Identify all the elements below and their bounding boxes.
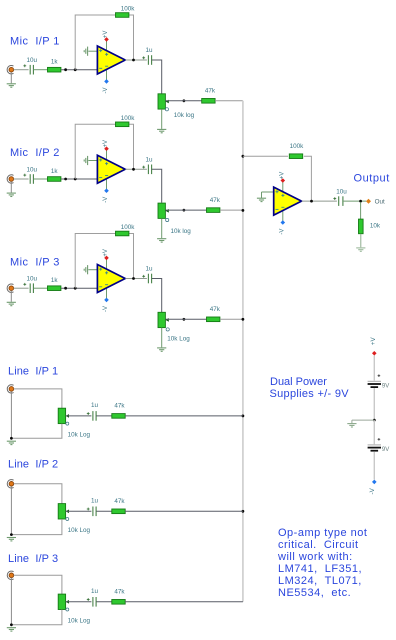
ground line input 2 [7, 538, 16, 541]
svg-text:1u: 1u [91, 497, 99, 504]
ground at mic input 1 [7, 84, 16, 87]
svg-text:100k: 100k [121, 115, 136, 122]
svg-text:47k: 47k [114, 403, 125, 410]
svg-text:+V: +V [370, 337, 377, 346]
resistor R10 100k feedback [289, 154, 302, 159]
wire U4 + input to ground [262, 191, 274, 193]
wire R14 to summing bus [125, 601, 243, 603]
svg-text:100k: 100k [121, 224, 136, 231]
resistor R2b 100k feedback [116, 122, 129, 127]
svg-text:10u: 10u [27, 167, 38, 174]
wire U4 output to C7 [302, 200, 337, 202]
svg-text:critical. Circuit: critical. Circuit [278, 539, 359, 551]
svg-text:100k: 100k [121, 6, 136, 13]
line input connector J4 [7, 385, 13, 393]
svg-text:1u: 1u [145, 47, 153, 54]
svg-text:1u: 1u [145, 266, 153, 273]
svg-text:47k: 47k [210, 197, 221, 204]
wire centre node to ground [352, 419, 374, 421]
capacitor C3b 1u [148, 274, 151, 284]
svg-text:-V: -V [103, 88, 109, 94]
svg-text:9V: 9V [382, 383, 389, 389]
resistor R11 10k load [359, 219, 364, 234]
feedback loop wire mic2 [75, 124, 133, 179]
svg-text:Mic I/P 3: Mic I/P 3 [10, 257, 60, 269]
wire R3c to summing bus [220, 318, 243, 320]
C2a polarity + [23, 174, 26, 177]
node mic2 output node [132, 168, 135, 171]
wire J4 to pot VR4 [14, 389, 62, 408]
op-amp U1 +V terminal [104, 37, 109, 42]
wire J4 sleeve down [10, 391, 12, 438]
op-amp U2 -V pin mark [105, 175, 108, 177]
svg-text:1u: 1u [91, 402, 99, 409]
summing bus (virtual earth node) [242, 101, 244, 602]
wire J3 to ground [10, 291, 12, 302]
potentiometer VR6 10k Log [58, 594, 65, 609]
wire VR1 to ground [161, 109, 163, 129]
svg-text:NE5534, etc.: NE5534, etc. [278, 587, 351, 599]
svg-text:1k: 1k [51, 277, 59, 284]
wire J3 to C3a [14, 287, 29, 289]
ground at mic input 2 [7, 193, 16, 196]
wire R2a to op-amp inverting input [61, 178, 98, 180]
op-amp U3 -V terminal [104, 298, 109, 303]
potentiometer VR3 10k log [158, 312, 165, 327]
node mic1 wiper node [183, 99, 186, 102]
ground below R11 [356, 248, 365, 251]
op-amp U1 - input mark [99, 67, 102, 69]
node bus line2 tap [242, 510, 245, 513]
ground line input 1 [7, 441, 16, 444]
wire R2c to summing bus [220, 209, 243, 211]
wire battery B2 to -V [373, 452, 375, 480]
ground below VR2 [157, 239, 166, 242]
capacitor C9 1u [93, 507, 96, 517]
wire J6 sleeve down [10, 578, 12, 625]
op-amp U3 - input mark [99, 286, 102, 288]
node mic2 input node a [64, 178, 67, 181]
wire VR4 wiper to C8 [66, 415, 92, 417]
node output node [359, 200, 362, 203]
wire R1a to op-amp inverting input [61, 69, 98, 71]
wire ground drop U4 [261, 192, 263, 198]
C7 polarity + [333, 197, 336, 200]
feedback loop wire mic3 [75, 234, 133, 289]
svg-text:47k: 47k [114, 588, 125, 595]
node mic2 feedback node [74, 178, 77, 181]
svg-text:Line I/P 3: Line I/P 3 [8, 553, 58, 565]
feedback loop wire mic1 [75, 15, 133, 70]
op-amp U4 + input mark [276, 190, 279, 193]
resistor R13 47k [112, 509, 125, 514]
C8 polarity + [87, 412, 90, 415]
wire J2 to C2a [14, 178, 29, 180]
wire VR6 wiper to C10 [66, 601, 92, 603]
wire J1 to ground [10, 72, 12, 83]
svg-text:10k Log: 10k Log [68, 617, 91, 624]
op-amp U3 power stubs [106, 258, 108, 274]
svg-text:will work with:: will work with: [277, 551, 353, 563]
svg-text:Mic I/P 1: Mic I/P 1 [10, 35, 60, 47]
node mic1 output node [132, 59, 135, 62]
ground at supply centre [347, 424, 356, 427]
potentiometer VR5 10k Log [58, 504, 65, 519]
svg-text:Output: Output [354, 173, 390, 185]
op-amp U4 - input mark [276, 208, 279, 210]
svg-text:-V: -V [103, 306, 109, 312]
C9 polarity + [87, 508, 90, 511]
wire VR5 bottom to ground rail line2 [11, 519, 62, 535]
resistor R14 47k [112, 600, 125, 605]
wire R12 to summing bus [125, 415, 243, 417]
svg-text:1k: 1k [51, 168, 59, 175]
node mic1 input node a [64, 68, 67, 71]
svg-text:10u: 10u [27, 57, 38, 64]
Out terminal [366, 199, 371, 204]
op-amp U3 +V terminal [104, 256, 109, 261]
capacitor C7 10u output [339, 196, 343, 206]
pot VR5 bottom terminal circle [66, 518, 69, 521]
resistor R2a 1k [48, 177, 61, 182]
node mic3 wiper node [183, 318, 186, 321]
pot VR6 bottom terminal circle [66, 608, 69, 611]
resistor R12 47k [112, 414, 125, 419]
svg-text:10k Log: 10k Log [68, 431, 91, 438]
wire J5 sleeve down [10, 486, 12, 534]
node bus feedback tap [242, 155, 245, 158]
C3b polarity + [142, 275, 145, 278]
op-amp U1 [97, 46, 125, 74]
svg-text:-V: -V [279, 229, 285, 235]
wire R3a to op-amp inverting input [61, 287, 98, 289]
node bus mic3 tap [242, 318, 245, 321]
pot VR4 bottom terminal circle [66, 422, 69, 425]
ground at mic input 3 [7, 302, 16, 305]
wire C2a to R2a [34, 178, 48, 180]
node bus to op-amp U4 input [242, 209, 245, 212]
svg-text:10k Log: 10k Log [68, 527, 91, 534]
svg-text:10k log: 10k log [174, 112, 195, 119]
C10 polarity + [87, 598, 90, 601]
svg-text:Supplies +/- 9V: Supplies +/- 9V [270, 388, 350, 400]
svg-text:LM324, TL071,: LM324, TL071, [278, 575, 362, 587]
op-amp U4 +V pin mark [281, 194, 284, 197]
wire C2b to volume pot mic2 [152, 169, 162, 203]
wire +V to battery B1 [373, 356, 375, 381]
wire C8 to R12 [96, 415, 112, 417]
wire VR2 to ground [161, 219, 163, 239]
line input connector J6 [7, 571, 13, 579]
ground below VR1 [157, 129, 166, 132]
wire C3b to volume pot mic3 [152, 279, 162, 313]
wire R1c to summing bus [215, 100, 243, 102]
svg-text:Out: Out [375, 198, 385, 205]
-V supply terminal [372, 480, 377, 485]
svg-text:9V: 9V [382, 447, 389, 453]
wire C10 to R14 [96, 601, 112, 603]
op-amp U3 [97, 265, 125, 293]
wire C7 to Out terminal [342, 200, 366, 202]
node line2 ground node [10, 533, 13, 536]
op-amp U4 -V pin mark [281, 206, 284, 208]
op-amp U2 -V terminal [104, 188, 109, 193]
wire VR6 bottom to ground rail line3 [11, 610, 62, 625]
capacitor C2a 10u [30, 174, 33, 184]
op-amp U2 +V terminal [104, 146, 109, 151]
wire centre node to battery B2 [373, 420, 375, 444]
wire C3a to R3a [34, 287, 48, 289]
wire ground drop supply [351, 420, 353, 423]
battery B2 9V [368, 445, 381, 451]
wire C1a to R1a [34, 69, 48, 71]
node bus line1 tap [242, 415, 245, 418]
wire non-inverting input to ground mic3 [88, 269, 97, 271]
op-amp U4 -V terminal [281, 220, 286, 225]
resistor R1a 1k [48, 67, 61, 72]
line input connector J5 [7, 480, 13, 488]
op-amp U1 -V terminal [104, 79, 109, 84]
node mic3 output node [132, 277, 135, 280]
svg-text:LM741, LF351,: LM741, LF351, [278, 563, 362, 575]
node line1 ground node [10, 437, 13, 440]
svg-text:10k: 10k [370, 222, 381, 229]
ground below VR3 [157, 348, 166, 351]
wire VR3 wiper to R3c [165, 318, 206, 320]
ground line input 3 [7, 628, 16, 631]
wire R13 to summing bus [125, 510, 243, 512]
wire C9 to R13 [96, 510, 112, 512]
svg-text:47k: 47k [210, 306, 221, 313]
capacitor C1b 1u [148, 55, 151, 65]
svg-text:-V: -V [103, 197, 109, 203]
svg-text:100k: 100k [290, 143, 305, 150]
capacitor C8 1u [93, 411, 96, 421]
capacitor C1a 10u [30, 65, 33, 75]
op-amp U2 [97, 155, 125, 183]
svg-text:Op-amp type not: Op-amp type not [278, 527, 367, 539]
wire VR2 wiper to R2c [165, 209, 206, 211]
resistor R3a 1k [48, 286, 61, 291]
node supply centre node [373, 419, 376, 422]
op-amp U4 power stubs [282, 181, 284, 197]
capacitor C2b 1u [148, 165, 151, 175]
wire VR3 to ground [161, 328, 163, 348]
C1a polarity + [23, 64, 26, 67]
wire J2 to ground [10, 181, 12, 192]
svg-text:47k: 47k [205, 88, 216, 95]
op-amp U3 -V pin mark [105, 284, 108, 286]
wire non-inverting input to ground mic1 [88, 50, 97, 52]
node output feedback node [310, 200, 313, 203]
node mic3 feedback node [74, 287, 77, 290]
ground at U4 + input [257, 198, 266, 201]
svg-text:47k: 47k [114, 498, 125, 505]
wire battery B1 to centre node [373, 388, 375, 420]
capacitor C3a 10u [30, 283, 33, 293]
svg-text:Dual Power: Dual Power [270, 376, 327, 388]
op-amp U3 + input mark [99, 268, 102, 271]
svg-text:1u: 1u [145, 156, 153, 163]
pot VR2 bottom terminal circle [166, 218, 169, 221]
svg-text:+V: +V [103, 249, 109, 257]
wire C1b to volume pot mic1 [152, 60, 162, 94]
op-amp U2 - input mark [99, 177, 102, 179]
op-amp U1 + input mark [99, 49, 102, 52]
svg-text:10u: 10u [27, 276, 38, 283]
op-amp U1 -V pin mark [105, 65, 108, 67]
node line3 ground node [10, 623, 13, 626]
wire R10 to output node [304, 156, 312, 201]
wire op-amp U3 output to C3b [125, 278, 146, 280]
C3a polarity + [23, 283, 26, 286]
battery B2 + mark [378, 438, 381, 441]
svg-text:+V: +V [103, 31, 109, 39]
node mic1 feedback node [74, 68, 77, 71]
svg-text:Line I/P 2: Line I/P 2 [8, 459, 58, 471]
battery B1 9V [368, 381, 381, 387]
svg-text:10k log: 10k log [171, 228, 192, 235]
wire J6 to pot VR6 [14, 575, 62, 594]
wire J5 to pot VR5 [14, 484, 62, 504]
resistor R1c 47k [202, 99, 215, 104]
resistor R3b 100k feedback [116, 231, 129, 236]
wire VR1 wiper to R1c [165, 100, 201, 102]
svg-text:Mic I/P 2: Mic I/P 2 [10, 147, 60, 159]
C2b polarity + [142, 166, 145, 169]
svg-text:Line I/P 1: Line I/P 1 [8, 366, 58, 378]
wire bus to R10 [243, 155, 288, 157]
node mic3 input node a [64, 287, 67, 290]
node mic2 wiper node [183, 209, 186, 212]
resistor R1b 100k feedback [116, 13, 129, 18]
potentiometer VR2 10k log [158, 203, 165, 218]
C1b polarity + [142, 56, 145, 59]
wire non-inverting input to ground mic2 [88, 160, 97, 162]
pot VR3 bottom terminal circle [166, 328, 169, 331]
svg-text:+V: +V [103, 140, 109, 148]
wire VR4 bottom to ground rail line1 [11, 424, 62, 439]
wire J1 to C1a [14, 69, 29, 71]
mic input connector J3 [7, 284, 13, 292]
ground at + input mic3 [84, 265, 87, 274]
ground at + input mic2 [84, 156, 87, 165]
pot VR1 bottom terminal circle [165, 108, 168, 111]
svg-text:1k: 1k [51, 59, 59, 66]
op-amp U2 + input mark [99, 158, 102, 161]
wire op-amp U2 output to C2b [125, 168, 146, 170]
svg-text:10k Log: 10k Log [167, 336, 190, 343]
svg-text:1u: 1u [91, 588, 99, 595]
op-amp U4 [274, 187, 302, 215]
resistor R2c 47k [207, 208, 220, 213]
ground at + input mic1 [84, 47, 87, 56]
wire R11 to ground [360, 234, 362, 248]
svg-text:+V: +V [279, 172, 285, 180]
svg-text:10u: 10u [336, 189, 347, 196]
wire op-amp U1 output to C1b [125, 59, 146, 61]
op-amp U2 +V pin mark [105, 162, 108, 165]
mic input connector J1 [7, 66, 13, 74]
wire output node to R11 [360, 202, 362, 219]
mic input connector J2 [7, 175, 13, 183]
+V supply terminal [372, 351, 377, 356]
potentiometer VR4 10k Log [58, 408, 65, 423]
potentiometer VR1 10k log [158, 94, 165, 109]
op-amp U2 power stubs [106, 149, 108, 165]
op-amp U4 +V terminal [281, 178, 286, 183]
wire VR5 wiper to C9 [66, 510, 92, 512]
battery B1 + mark [378, 374, 381, 377]
op-amp U1 power stubs [106, 40, 108, 56]
svg-text:-V: -V [369, 487, 376, 494]
resistor R3c 47k [207, 317, 220, 322]
op-amp U1 +V pin mark [105, 53, 108, 56]
op-amp U3 +V pin mark [105, 271, 108, 274]
capacitor C10 1u [93, 597, 96, 607]
